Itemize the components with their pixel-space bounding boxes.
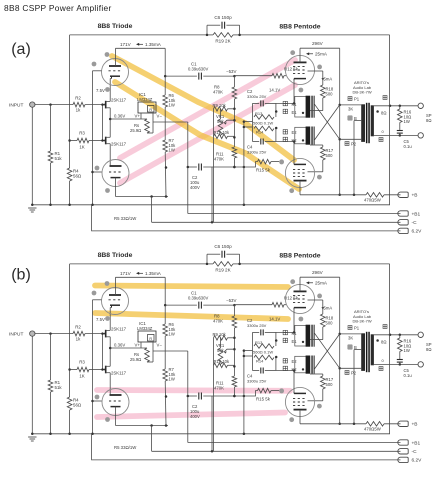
pin 7 lower pentode grid (a) [279, 159, 283, 163]
resistor R18 500 (b) [321, 314, 326, 327]
resistor R12 5k (b) [272, 302, 284, 307]
connector +B1 (a) [398, 211, 408, 216]
IC1 LM334Z current source (b) [138, 331, 156, 342]
resistor R1 51k (b) [48, 380, 53, 392]
svg-text:8Ω: 8Ω [381, 111, 386, 116]
svg-text:R: R [149, 337, 152, 341]
svg-text:7.5V: 7.5V [96, 88, 105, 93]
wire IC1 V- (b) [152, 342, 154, 351]
svg-text:R2: R2 [75, 325, 81, 330]
svg-text:50k: 50k [217, 119, 225, 124]
svg-text:25mA: 25mA [315, 281, 328, 286]
resistor R17 500 (a) [310, 144, 323, 146]
resistor R16 10 ohm 1W (a) [399, 106, 401, 109]
resistor R11 470K (a) [232, 147, 237, 158]
svg-text:1K: 1K [79, 374, 84, 379]
svg-text:2SK117: 2SK117 [111, 371, 127, 376]
highlight bands circuit (b) [95, 286, 288, 288]
supply rail V- drop wire (a) [187, 122, 189, 214]
wire to R15 (a) [244, 162, 258, 167]
svg-text:560Ω 0.1W: 560Ω 0.1W [253, 350, 273, 355]
svg-text:R5 33Ω/1W: R5 33Ω/1W [114, 216, 137, 221]
capacitor C6 150p (a) [206, 25, 208, 35]
wire upper pentode screen (a) [308, 70, 323, 72]
capacitor C7 coupling lower 0.39u (a) [188, 166, 197, 168]
svg-text:7.5V: 7.5V [96, 317, 105, 322]
grid bus wire (a) [92, 71, 94, 205]
resistor R17 500 (b) [310, 373, 323, 375]
resistor R2 1k (b) [73, 331, 85, 336]
svg-text:E2: E2 [292, 130, 298, 135]
pin 9 upper triode (b) [105, 281, 110, 286]
feedback right drop wire (a) [389, 35, 391, 205]
wire upper pentode plate 296V (a) [299, 48, 301, 62]
svg-text:14.1V: 14.1V [269, 88, 280, 93]
svg-text:-C: -C [412, 220, 418, 226]
svg-text:400V: 400V [190, 414, 200, 419]
bias taps (b) [244, 350, 253, 352]
wire lower pentode plate to +B (b) [299, 411, 301, 424]
transistor Q1 2SK117 (b) [105, 330, 107, 338]
svg-text:R9 10k: R9 10k [213, 332, 227, 337]
pin 2 upper triode (b) [92, 291, 97, 296]
pin 3 upper triode (a) [105, 87, 110, 92]
secondary wire 8 ohm (b) [374, 334, 418, 336]
ground rail (b) [32, 433, 390, 435]
speaker terminal - (b) [418, 362, 423, 367]
wire K2 (a) [276, 141, 295, 143]
svg-text:LM334Z: LM334Z [137, 97, 153, 102]
output transformer OPT primary (b) [361, 333, 365, 371]
connector +B (a) [398, 192, 408, 197]
wire upper pentode plate 296V (b) [299, 277, 301, 291]
svg-text:560Ω 0.1W: 560Ω 0.1W [253, 121, 273, 126]
wire upper triode grid (a) [93, 70, 102, 72]
svg-text:2SK117: 2SK117 [111, 142, 127, 147]
cathode bias ground column (b) [243, 351, 245, 434]
resistor R6s 25.9 ohm (b) [145, 348, 150, 362]
wire lower triode cathode (a) [115, 178, 117, 197]
wire B tap (a) [354, 120, 361, 122]
svg-text:8B8 Pentode: 8B8 Pentode [279, 253, 320, 260]
feedback wire left drop (a) [69, 35, 71, 168]
svg-text:DB-3K-7W: DB-3K-7W [353, 90, 372, 95]
bias network R14 560 C4 3300u (b) [254, 355, 274, 360]
svg-text:+B1: +B1 [412, 211, 421, 217]
wire Q1 drain to triode cathode (a) [109, 79, 111, 102]
IC1 LM334Z current source (a) [138, 102, 156, 113]
wire P2 (b) [340, 367, 362, 369]
input terminal (b) [30, 331, 35, 336]
svg-text:25.9Ω: 25.9Ω [130, 357, 141, 362]
svg-text:V+: V+ [135, 114, 141, 119]
pin 9 upper triode (a) [105, 52, 110, 57]
pin 5 lower triode (a) [105, 188, 110, 193]
pentode V2 upper (a) [285, 55, 314, 84]
interstage transformer T1 K1 E1 (b) [295, 325, 307, 346]
svg-text:8B8 Triode: 8B8 Triode [98, 252, 133, 259]
svg-text:0.39u630V: 0.39u630V [188, 67, 208, 72]
svg-text:3300u 25V: 3300u 25V [247, 150, 267, 155]
node input / R1 (a) [49, 103, 52, 106]
svg-text:14.1V: 14.1V [269, 317, 280, 322]
svg-text:E2: E2 [292, 359, 298, 364]
svg-text:-C: -C [412, 449, 418, 455]
svg-text:V−: V− [157, 343, 163, 348]
transistor Q1 2SK117 (a) [105, 101, 107, 109]
capacitor C1 0.39u 630V (b) [165, 304, 197, 306]
wire upper triode plate (a) [115, 48, 117, 66]
resistor R7 10k 1W (a) [163, 140, 168, 152]
svg-text:P1: P1 [354, 97, 360, 102]
svg-text:P1: P1 [354, 326, 360, 331]
wire upper triode grid (b) [93, 299, 102, 301]
resistor R9 10k (a) [214, 107, 228, 112]
cross wire upper (b) [315, 333, 340, 368]
wire to R15 (b) [244, 391, 258, 396]
pin 4 lower triode (b) [95, 395, 100, 400]
svg-text:500: 500 [326, 382, 334, 387]
svg-text:2SK117: 2SK117 [111, 327, 127, 332]
svg-text:8Ω: 8Ω [426, 347, 431, 352]
pin 4 lower triode (a) [95, 166, 100, 171]
feedback wire top (b) [70, 263, 207, 265]
svg-text:25.9Ω: 25.9Ω [130, 128, 141, 133]
svg-text:3K: 3K [348, 336, 353, 341]
bus wire 6.2V (a) [92, 205, 401, 231]
capacitor C5 0.1u (a) [399, 123, 401, 131]
resistor R1 51k (a) [48, 151, 53, 163]
svg-text:+B1: +B1 [412, 440, 421, 446]
wire upper pentode cathode to K1 (a) [293, 79, 295, 104]
wire R1 drop (a) [50, 105, 52, 151]
resistor R5 / -C wire (b) [151, 426, 153, 452]
output transformer secondary (b) [371, 334, 374, 365]
bias network C2 3300u R13 560 (a) [253, 102, 260, 104]
feedback wire top (a) [70, 34, 207, 36]
capacitor C6 150p (b) [206, 254, 208, 264]
svg-text:R12 5k: R12 5k [284, 296, 299, 301]
svg-text:R13: R13 [255, 111, 263, 116]
connector 6.2V (b) [398, 457, 408, 462]
svg-text:470K: 470K [213, 319, 223, 324]
resistor R18 500 (a) [321, 85, 326, 98]
svg-text:1W: 1W [404, 348, 410, 353]
svg-text:B: B [354, 345, 357, 350]
capacitor C1 0.39u 630V (a) [165, 75, 197, 77]
svg-text:R9 10k: R9 10k [213, 103, 227, 108]
svg-text:1k: 1k [76, 108, 81, 113]
connector -C (a) [398, 220, 408, 225]
svg-text:8B8 Triode: 8B8 Triode [98, 23, 133, 30]
wire Q2 source to lower triode plate (b) [109, 373, 111, 395]
supply column wire (b) [339, 277, 341, 424]
svg-text:0.36V: 0.36V [114, 114, 125, 119]
svg-text:400V: 400V [190, 185, 200, 190]
svg-text:INPUT: INPUT [9, 103, 23, 109]
pin 2 upper triode (a) [92, 62, 97, 67]
svg-text:0.1u: 0.1u [404, 144, 413, 149]
secondary wire 0 ohm (b) [374, 363, 418, 365]
resistor R16 10 ohm 1W (b) [399, 335, 401, 338]
capacitor C7 coupling lower 0.39u (b) [188, 395, 197, 397]
input terminal (a) [30, 102, 35, 107]
ground rail (a) [32, 204, 390, 206]
node input / R1 (b) [49, 332, 52, 335]
resistor R15 5k (a) [258, 159, 272, 164]
svg-text:470Ω5W: 470Ω5W [364, 198, 382, 203]
svg-text:8B8 CSPP Power Amplifier: 8B8 CSPP Power Amplifier [4, 3, 112, 13]
resistor R6 10k 1W (b) [164, 305, 166, 324]
output transformer core (b) [366, 332, 368, 372]
svg-text:R19 2K: R19 2K [215, 268, 231, 273]
resistor R15 5k (b) [258, 388, 272, 393]
svg-text:1k: 1k [76, 337, 81, 342]
svg-text:500: 500 [326, 320, 334, 325]
svg-text:6.2V: 6.2V [412, 458, 423, 464]
svg-text:470Ω5W: 470Ω5W [364, 427, 382, 432]
resistor R11 470K (b) [232, 376, 237, 387]
svg-text:P2: P2 [351, 142, 357, 147]
resistor R20 470 ohm 5W (a) [366, 193, 384, 198]
interstage transformer T2 E2 K2 (a) [295, 127, 307, 144]
bus wire +B1 (a) [188, 213, 401, 215]
svg-text:V−: V− [157, 114, 163, 119]
wire input to R2 (a) [35, 104, 73, 106]
connector -C (b) [398, 449, 408, 454]
resistor R20 470 ohm 5W (b) [366, 422, 384, 427]
supply column wire (a) [339, 48, 341, 195]
svg-text:(a): (a) [11, 41, 31, 58]
svg-text:3300u 25V: 3300u 25V [247, 323, 267, 328]
svg-text:296V: 296V [312, 41, 324, 46]
wire Q1 drain to triode cathode (b) [109, 308, 111, 331]
svg-text:C6 150p: C6 150p [214, 15, 232, 20]
svg-text:51k: 51k [55, 156, 63, 161]
resistor R9 10k (b) [214, 336, 228, 341]
svg-text:R: R [149, 108, 152, 112]
highlight bands circuit (a) [120, 60, 295, 158]
triode V1 lower (a) [102, 160, 129, 187]
wire upper pentode cathode to K1 (b) [293, 308, 295, 333]
bus wire 6.2V (b) [92, 434, 401, 460]
svg-text:470K: 470K [214, 157, 224, 162]
svg-text:1K: 1K [79, 145, 84, 150]
wire P2 (a) [340, 138, 362, 140]
transistor Q2 2SK117 (a) [105, 137, 107, 145]
bias network C2 3300u R13 560 (b) [253, 331, 260, 333]
svg-text:470K: 470K [214, 386, 224, 391]
svg-text:LM334Z: LM334Z [137, 326, 153, 331]
svg-text:R5 33Ω/1W: R5 33Ω/1W [114, 445, 137, 450]
connector +B1 (b) [398, 440, 408, 445]
wire lower pentode plate to +B (a) [299, 182, 301, 195]
wire input shield drop (a) [31, 107, 33, 205]
svg-text:3300u 25V: 3300u 25V [247, 94, 267, 99]
resistor R19 2K (a) [213, 33, 233, 38]
connector 6.2V (a) [398, 228, 408, 233]
svg-text:296V: 296V [312, 270, 324, 275]
speaker terminal + (a) [418, 103, 423, 108]
svg-text:50k: 50k [217, 348, 225, 353]
svg-text:1.35mA: 1.35mA [145, 42, 162, 47]
wire lower pentode cathode to K2 (b) [293, 371, 295, 394]
svg-text:470K: 470K [213, 90, 223, 95]
svg-text:R14: R14 [256, 130, 264, 135]
svg-text:500: 500 [326, 153, 334, 158]
pin 5 lower triode (b) [105, 417, 110, 422]
svg-text:1W: 1W [404, 119, 410, 124]
svg-text:R3: R3 [79, 131, 85, 136]
wire input to R2 (b) [35, 333, 73, 335]
svg-text:56Ω: 56Ω [73, 174, 82, 179]
svg-text:E1: E1 [292, 110, 298, 115]
resistor R10 10k (b) [214, 363, 228, 368]
svg-text:(b): (b) [11, 267, 31, 284]
resistor R6 10k 1W (a) [164, 76, 166, 95]
supply rail V- drop wire (b) [187, 351, 189, 443]
wire C1 to R12 (a) [233, 75, 236, 78]
svg-text:3300u 25V: 3300u 25V [247, 379, 267, 384]
wire upper pentode screen (b) [308, 299, 323, 301]
cross wire lower (a) [315, 105, 340, 140]
svg-text:0.36V: 0.36V [114, 343, 125, 348]
svg-text:5mA: 5mA [324, 306, 333, 311]
bus wire +B1 (b) [188, 442, 401, 444]
svg-text:1W: 1W [169, 332, 175, 337]
svg-text:8Ω: 8Ω [426, 118, 431, 123]
resistor R6s 25.9 ohm (a) [145, 119, 150, 133]
svg-text:6.2V: 6.2V [412, 229, 423, 235]
svg-text:0.39u630V: 0.39u630V [188, 296, 208, 301]
svg-text:25mA: 25mA [315, 52, 328, 57]
svg-text:R3: R3 [79, 360, 85, 365]
svg-text:1W: 1W [169, 103, 175, 108]
svg-text:2SK117: 2SK117 [111, 98, 127, 103]
wire C1 to R12 (b) [233, 304, 236, 307]
wire R1 drop (b) [50, 334, 52, 380]
cross wire upper (a) [315, 104, 340, 139]
svg-text:5mA: 5mA [324, 77, 333, 82]
svg-text:171V: 171V [120, 271, 132, 276]
resistor R8 470K (b) [233, 305, 235, 316]
connector +B (b) [398, 421, 408, 426]
wire lower triode grid (b) [93, 400, 103, 402]
wire K2 (b) [276, 370, 295, 372]
svg-text:V+: V+ [135, 343, 141, 348]
wire K1 (a) [276, 102, 295, 104]
svg-text:P2: P2 [351, 371, 357, 376]
bias taps (a) [244, 121, 253, 123]
svg-text:R13: R13 [255, 340, 263, 345]
pentode V2 upper (b) [285, 284, 314, 313]
resistor R3 1K (a) [68, 139, 71, 142]
wire lower pentode cathode to K2 (a) [293, 142, 295, 165]
svg-text:56Ω: 56Ω [73, 403, 82, 408]
svg-text:R15 5k: R15 5k [256, 397, 271, 402]
interstage transformer T1 K1 E1 (a) [295, 96, 307, 117]
wire IC1 V+ (a) [110, 118, 147, 120]
speaker terminal + (b) [418, 332, 423, 337]
interstage transformer T2 E2 K2 (b) [295, 356, 307, 373]
output transformer OPT primary (a) [361, 104, 365, 142]
output transformer core (a) [366, 103, 368, 143]
wire K1 (b) [276, 331, 295, 333]
svg-text:51k: 51k [55, 385, 63, 390]
cross wire lower (b) [315, 334, 340, 369]
bias network R14 560 C4 3300u (a) [254, 126, 274, 131]
wire P1 (a) [340, 104, 362, 106]
svg-text:INPUT: INPUT [9, 332, 23, 338]
svg-text:1.35mA: 1.35mA [145, 271, 162, 276]
svg-text:R2: R2 [75, 96, 81, 101]
wire lower triode grid (a) [93, 171, 103, 173]
svg-text:R15 5k: R15 5k [256, 168, 271, 173]
capacitor C5 0.1u (b) [399, 352, 401, 360]
wire IC1 V+ (b) [110, 347, 147, 349]
resistor R7 10k 1W (b) [163, 369, 168, 381]
secondary wire 8 ohm (a) [374, 105, 418, 107]
svg-text:−53V: −53V [226, 298, 236, 303]
pentode V2 lower (a) [285, 158, 314, 187]
svg-text:3K: 3K [348, 107, 353, 112]
svg-text:1W: 1W [169, 377, 175, 382]
triode V1 lower (b) [102, 389, 129, 416]
svg-text:R10 10k: R10 10k [214, 130, 231, 135]
triode V1 upper (b) [102, 288, 129, 315]
resistor R3 1K (b) [68, 368, 71, 371]
svg-text:R19 2K: R19 2K [215, 39, 231, 44]
trim pot VR1 50k (b) [213, 338, 215, 452]
pentode V2 lower (b) [285, 387, 314, 416]
svg-text:500: 500 [326, 91, 334, 96]
svg-text:R14: R14 [256, 359, 264, 364]
resistor R2 1k (a) [73, 102, 85, 107]
wire B tap (b) [354, 349, 361, 351]
svg-text:8Ω: 8Ω [381, 340, 386, 345]
cathode bias ground column (a) [243, 122, 245, 205]
resistor R19 2K (b) [213, 262, 233, 267]
svg-text:C6 150p: C6 150p [214, 244, 232, 249]
svg-text:171V: 171V [120, 42, 132, 47]
svg-text:E1: E1 [292, 339, 298, 344]
wire input shield drop (b) [31, 336, 33, 434]
triode V1 upper (a) [102, 59, 129, 86]
grid bus wire (b) [92, 300, 94, 434]
svg-text:DB-3K-7W: DB-3K-7W [353, 319, 372, 324]
pin 7 lower pentode grid (b) [279, 388, 283, 392]
wire Q1 source to Q2 drain (b) [109, 337, 111, 367]
resistor R8 470K (a) [233, 76, 235, 87]
svg-text:B: B [354, 116, 357, 121]
resistor R12 5k (a) [272, 73, 284, 78]
resistor R4 56 ohm (b) [67, 397, 72, 410]
secondary wire 0 ohm (a) [374, 134, 418, 136]
svg-text:8B8 Pentode: 8B8 Pentode [279, 24, 320, 31]
resistor R10 10k (a) [214, 134, 228, 139]
wire Q1 source to Q2 drain (a) [109, 108, 111, 138]
wire P1 (b) [340, 333, 362, 335]
pin 3 upper triode (b) [105, 316, 110, 321]
svg-text:+B: +B [412, 422, 418, 428]
trim pot VR1 50k (a) [213, 109, 215, 223]
resistor R4 56 ohm (a) [67, 168, 72, 181]
svg-text:R10 10k: R10 10k [214, 359, 231, 364]
ground symbol (a) [28, 207, 36, 209]
feedback wire left drop (b) [69, 264, 71, 397]
gate link wire (a) [102, 105, 104, 141]
transistor Q2 2SK117 (b) [105, 366, 107, 374]
